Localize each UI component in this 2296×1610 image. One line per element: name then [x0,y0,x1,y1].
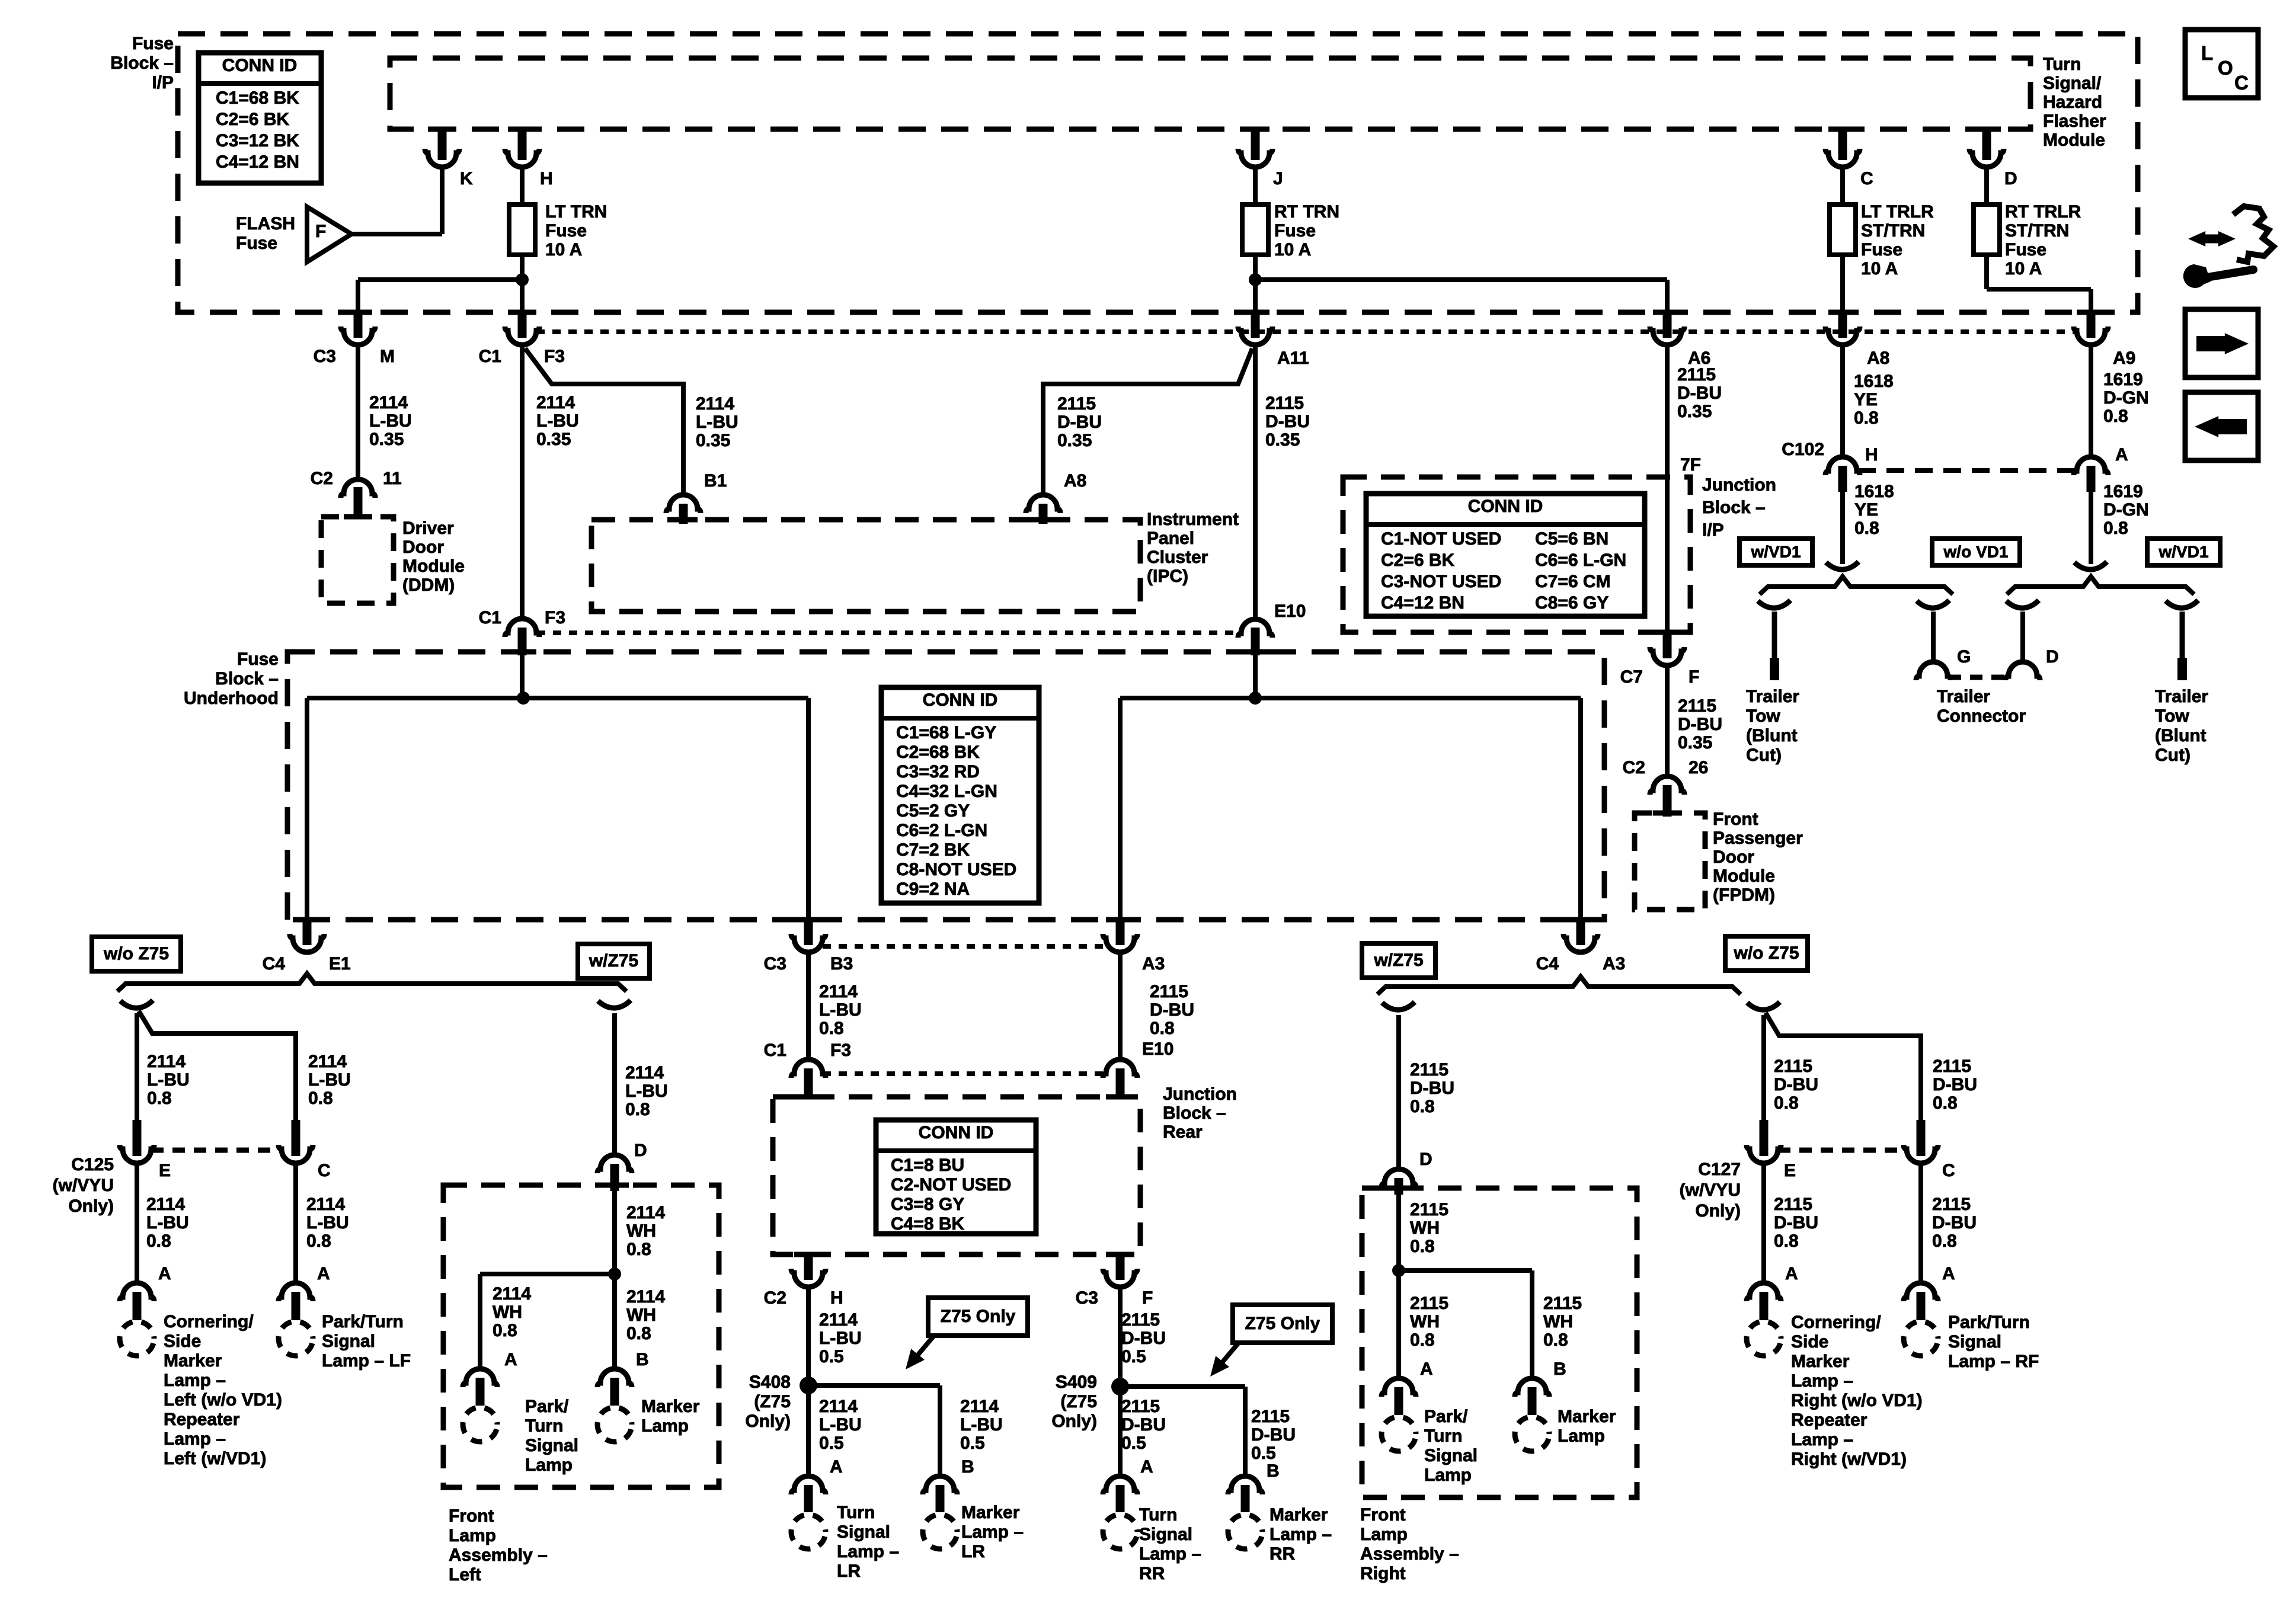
svg-text:C3=32 RD: C3=32 RD [896,762,980,782]
svg-text:LT TRN: LT TRN [545,202,607,222]
svg-text:C6=2 L-GN: C6=2 L-GN [896,821,987,840]
svg-text:0.8: 0.8 [1150,1019,1175,1038]
svg-text:C5=2 GY: C5=2 GY [896,801,970,821]
svg-text:C: C [2234,72,2249,94]
svg-text:2115: 2115 [1265,393,1304,413]
svg-text:L: L [2201,42,2213,64]
svg-text:2114: 2114 [369,393,408,412]
svg-text:C7=6 CM: C7=6 CM [1535,572,1611,591]
svg-text:E1: E1 [329,954,351,974]
svg-text:C2-NOT USED: C2-NOT USED [891,1175,1011,1195]
svg-text:Turn: Turn [2043,55,2081,74]
svg-text:Door: Door [402,537,444,557]
svg-text:F: F [1689,667,1699,687]
svg-text:C4: C4 [1536,954,1559,974]
svg-text:C1-NOT USED: C1-NOT USED [1381,529,1501,549]
svg-text:YE: YE [1854,500,1878,520]
svg-text:C2: C2 [311,469,333,488]
svg-text:2115: 2115 [1774,1195,1812,1214]
svg-text:E10: E10 [1142,1039,1173,1059]
svg-text:Cornering/: Cornering/ [164,1312,254,1331]
svg-text:Flasher: Flasher [2043,111,2106,131]
svg-text:Module: Module [402,556,465,576]
svg-text:A3: A3 [1603,954,1625,974]
svg-text:0.35: 0.35 [1678,733,1712,753]
svg-text:A8: A8 [1064,471,1086,491]
svg-text:0.35: 0.35 [369,430,404,449]
svg-text:A: A [158,1264,171,1283]
svg-text:Marker: Marker [641,1397,700,1416]
svg-text:2115: 2115 [1933,1057,1971,1076]
svg-text:2115: 2115 [1150,982,1188,1001]
svg-text:D-BU: D-BU [1774,1213,1818,1233]
svg-text:C2=6 BK: C2=6 BK [1381,550,1455,570]
svg-text:1618: 1618 [1854,482,1894,501]
svg-text:Connector: Connector [1937,706,2026,726]
svg-text:C6=6 L-GN: C6=6 L-GN [1535,550,1626,570]
svg-text:LT TRLR: LT TRLR [1861,202,1934,222]
svg-text:H: H [1865,445,1878,465]
svg-text:0.5: 0.5 [1121,1433,1146,1453]
svg-text:Junction: Junction [1163,1084,1237,1104]
svg-text:C4: C4 [263,954,286,974]
svg-text:I/P: I/P [152,73,174,92]
svg-text:Marker: Marker [961,1503,1020,1522]
svg-text:Right: Right [1360,1564,1406,1583]
svg-text:B: B [1267,1461,1280,1481]
svg-text:Repeater: Repeater [1791,1410,1868,1430]
svg-text:2114: 2114 [819,1397,858,1416]
svg-text:0.5: 0.5 [819,1433,844,1453]
svg-text:10 A: 10 A [545,240,582,260]
svg-text:D-BU: D-BU [1121,1415,1166,1435]
svg-text:A: A [830,1457,843,1477]
svg-text:C3: C3 [1076,1288,1098,1308]
svg-text:Trailer: Trailer [1746,687,1799,706]
svg-text:0.8: 0.8 [1410,1237,1435,1256]
svg-text:Signal: Signal [837,1522,890,1542]
svg-text:Only): Only) [1695,1201,1741,1221]
svg-text:2114: 2114 [960,1397,999,1416]
svg-text:L-BU: L-BU [536,411,579,431]
svg-text:Module: Module [2043,130,2105,150]
svg-text:LR: LR [837,1561,861,1581]
svg-text:Fuse: Fuse [236,233,277,253]
svg-text:RR: RR [1139,1564,1165,1583]
svg-text:C2=6 BK: C2=6 BK [216,110,290,129]
svg-text:1618: 1618 [1854,372,1894,391]
svg-text:C2: C2 [1623,758,1645,777]
svg-text:Lamp: Lamp [1424,1465,1472,1485]
svg-text:Cut): Cut) [2155,745,2191,765]
svg-text:Marker: Marker [1791,1352,1850,1371]
svg-text:0.8: 0.8 [1854,518,1879,538]
svg-text:Park/: Park/ [1424,1407,1468,1426]
svg-text:LR: LR [961,1542,985,1561]
svg-text:L-BU: L-BU [819,1000,862,1020]
svg-text:Signal: Signal [1139,1525,1192,1544]
svg-text:Marker: Marker [1269,1505,1328,1525]
svg-text:2115: 2115 [1543,1294,1582,1313]
svg-text:Front: Front [1713,809,1758,829]
svg-text:A: A [1140,1457,1153,1477]
svg-text:2114: 2114 [536,393,575,412]
svg-text:CONN ID: CONN ID [923,690,998,710]
svg-text:C1: C1 [764,1041,786,1060]
svg-text:Fuse: Fuse [2005,240,2046,260]
svg-text:D-BU: D-BU [1121,1329,1166,1348]
svg-text:11: 11 [383,469,402,488]
svg-text:F3: F3 [545,608,565,628]
svg-text:Fuse: Fuse [1274,221,1316,241]
svg-text:A8: A8 [1867,348,1889,368]
svg-text:(DDM): (DDM) [402,575,455,595]
svg-text:0.8: 0.8 [1410,1330,1435,1350]
svg-text:D-BU: D-BU [1265,412,1310,431]
svg-text:WH: WH [626,1221,656,1241]
svg-text:Signal: Signal [1948,1332,2001,1352]
svg-text:Signal: Signal [525,1436,578,1455]
svg-text:Passenger: Passenger [1713,828,1803,848]
svg-text:C3=8 GY: C3=8 GY [891,1195,964,1214]
svg-text:Lamp: Lamp [525,1455,573,1475]
svg-text:Cut): Cut) [1746,745,1782,765]
svg-text:L-BU: L-BU [369,411,412,431]
svg-text:F: F [1142,1288,1153,1308]
svg-text:10 A: 10 A [1274,240,1311,260]
svg-text:Trailer: Trailer [2155,687,2208,706]
svg-text:1619: 1619 [2103,370,2143,389]
svg-text:O: O [2218,57,2233,79]
svg-text:D-BU: D-BU [1410,1078,1454,1098]
svg-text:2115: 2115 [1410,1060,1448,1080]
svg-text:Instrument: Instrument [1147,510,1239,529]
svg-text:C7=2 BK: C7=2 BK [896,840,970,860]
svg-text:C1=68 L-GY: C1=68 L-GY [896,723,996,742]
svg-text:0.8: 0.8 [2103,518,2128,538]
svg-text:C4=12 BN: C4=12 BN [1381,593,1464,613]
svg-text:Marker: Marker [164,1351,222,1371]
svg-text:Tow: Tow [1746,706,1780,726]
svg-text:w/Z75: w/Z75 [1373,950,1423,970]
svg-text:2114: 2114 [819,982,858,1001]
svg-text:Signal: Signal [322,1331,375,1351]
svg-text:Only): Only) [1051,1411,1097,1431]
svg-text:Right (w/o VD1): Right (w/o VD1) [1791,1391,1923,1410]
svg-text:Side: Side [164,1331,201,1351]
svg-text:26: 26 [1689,758,1708,777]
svg-text:C102: C102 [1782,440,1824,459]
svg-text:Fuse: Fuse [132,34,174,53]
svg-text:C2: C2 [764,1288,786,1308]
svg-text:2114: 2114 [147,1052,186,1071]
svg-text:D-BU: D-BU [1933,1075,1977,1094]
svg-text:Assembly –: Assembly – [1360,1544,1459,1564]
svg-text:C5=6 BN: C5=6 BN [1535,529,1609,549]
svg-text:Signal/: Signal/ [2043,73,2102,93]
svg-text:2114: 2114 [146,1195,185,1214]
svg-text:2115: 2115 [1677,365,1716,385]
svg-text:Marker: Marker [1558,1407,1616,1426]
svg-text:C4=12 BN: C4=12 BN [216,152,299,172]
svg-text:Left (w/VD1): Left (w/VD1) [164,1449,266,1468]
svg-text:WH: WH [626,1305,656,1325]
svg-text:Module: Module [1713,866,1775,886]
svg-text:0.8: 0.8 [1774,1093,1799,1113]
svg-text:K: K [460,169,473,188]
svg-text:Lamp –: Lamp – [164,1371,226,1390]
svg-text:E10: E10 [1274,601,1306,621]
svg-text:L-BU: L-BU [960,1415,1003,1435]
svg-text:C1: C1 [479,347,501,366]
svg-text:Lamp – RF: Lamp – RF [1948,1352,2039,1371]
svg-text:D: D [2046,647,2059,667]
svg-text:(w/VYU: (w/VYU [1680,1180,1741,1200]
svg-text:D-BU: D-BU [1057,412,1102,432]
svg-text:0.8: 0.8 [306,1231,331,1251]
svg-text:A: A [504,1350,517,1369]
svg-text:w/o Z75: w/o Z75 [103,944,169,964]
svg-text:2115: 2115 [1057,394,1096,414]
svg-text:G: G [1957,647,1971,667]
svg-text:C3: C3 [314,347,336,366]
svg-text:0.8: 0.8 [147,1089,172,1108]
svg-text:Side: Side [1791,1332,1828,1352]
svg-text:Assembly –: Assembly – [449,1545,548,1565]
svg-text:Lamp: Lamp [641,1416,689,1436]
svg-text:Fuse: Fuse [1861,240,1902,260]
svg-text:0.8: 0.8 [493,1321,517,1340]
svg-text:L-BU: L-BU [147,1070,190,1090]
svg-text:Z75 Only: Z75 Only [941,1307,1016,1326]
svg-text:2114: 2114 [819,1310,858,1330]
svg-text:C125: C125 [71,1155,114,1174]
svg-text:Lamp –: Lamp – [837,1542,899,1561]
svg-text:Tow: Tow [2155,706,2189,726]
svg-text:Block –: Block – [110,53,174,73]
svg-text:0.35: 0.35 [1677,402,1712,421]
svg-text:ST/TRN: ST/TRN [2005,221,2069,241]
svg-text:C8=6 GY: C8=6 GY [1535,593,1609,613]
svg-text:D-BU: D-BU [1932,1213,1977,1233]
svg-text:0.5: 0.5 [819,1347,844,1366]
svg-text:Lamp –: Lamp – [164,1429,226,1449]
svg-text:(IPC): (IPC) [1147,566,1188,586]
svg-text:Lamp: Lamp [1360,1525,1408,1544]
svg-text:D-BU: D-BU [1678,715,1722,734]
svg-text:YE: YE [1854,390,1878,409]
svg-text:Lamp: Lamp [449,1526,496,1545]
svg-text:Turn: Turn [525,1416,563,1436]
svg-text:2115: 2115 [1774,1057,1812,1076]
svg-text:C1=8 BU: C1=8 BU [891,1156,964,1175]
svg-text:C1=68 BK: C1=68 BK [216,88,299,108]
svg-text:Trailer: Trailer [1937,687,1990,706]
svg-text:w/VD1: w/VD1 [2158,542,2208,561]
svg-text:0.35: 0.35 [696,431,730,450]
svg-text:Lamp – LF: Lamp – LF [322,1351,411,1371]
svg-text:2114: 2114 [626,1203,665,1222]
svg-text:0.8: 0.8 [626,1324,651,1343]
svg-text:0.8: 0.8 [146,1231,171,1251]
svg-text:WH: WH [1543,1312,1573,1331]
svg-text:D-BU: D-BU [1677,383,1722,403]
svg-text:D-BU: D-BU [1150,1000,1194,1020]
svg-text:E: E [159,1161,171,1180]
svg-text:D-GN: D-GN [2103,388,2149,408]
svg-text:C8-NOT USED: C8-NOT USED [896,860,1016,879]
svg-text:2115: 2115 [1678,696,1716,716]
svg-text:B: B [1553,1359,1566,1379]
svg-text:F3: F3 [830,1041,851,1060]
svg-text:Park/Turn: Park/Turn [322,1312,404,1331]
svg-text:B: B [961,1457,974,1477]
svg-text:2114: 2114 [308,1052,347,1071]
svg-text:2114: 2114 [625,1063,664,1083]
svg-text:Rear: Rear [1163,1122,1203,1142]
svg-text:Cornering/: Cornering/ [1791,1313,1881,1332]
svg-text:C4=8 BK: C4=8 BK [891,1214,965,1234]
svg-text:M: M [380,347,395,366]
svg-text:A3: A3 [1142,954,1165,974]
svg-text:CONN ID: CONN ID [1468,497,1543,516]
svg-text:Front: Front [449,1506,494,1526]
svg-text:L-BU: L-BU [819,1415,862,1435]
svg-text:C3=12 BK: C3=12 BK [216,131,299,151]
svg-text:2115: 2115 [1121,1397,1160,1416]
svg-text:CONN ID: CONN ID [919,1123,994,1142]
svg-text:Left (w/o VD1): Left (w/o VD1) [164,1390,282,1410]
svg-text:S408: S408 [749,1372,791,1392]
svg-text:F: F [315,222,326,241]
svg-text:C127: C127 [1698,1160,1741,1179]
svg-text:RT TRLR: RT TRLR [2005,202,2081,222]
svg-text:A: A [1785,1264,1798,1283]
svg-text:J: J [1273,169,1283,188]
svg-text:w/o Z75: w/o Z75 [1733,943,1799,963]
svg-text:Junction: Junction [1702,475,1776,495]
svg-text:D: D [2004,169,2017,188]
svg-text:S409: S409 [1056,1372,1097,1392]
svg-text:0.8: 0.8 [2103,406,2128,426]
svg-text:WH: WH [1410,1312,1440,1331]
svg-text:Lamp –: Lamp – [1791,1371,1853,1391]
svg-text:2115: 2115 [1121,1310,1160,1330]
svg-text:D: D [634,1141,647,1160]
svg-text:C2=68 BK: C2=68 BK [896,742,980,762]
svg-text:Block –: Block – [1702,498,1766,517]
svg-text:A: A [1420,1359,1433,1379]
svg-text:0.8: 0.8 [1854,408,1879,428]
svg-text:Cluster: Cluster [1147,548,1208,567]
svg-text:2114: 2114 [696,394,734,414]
svg-text:Only): Only) [68,1196,114,1216]
svg-text:Signal: Signal [1424,1446,1478,1465]
svg-text:D-GN: D-GN [2103,500,2149,520]
svg-text:D-BU: D-BU [1774,1075,1818,1094]
svg-text:C7: C7 [1620,667,1643,687]
svg-text:(FPDM): (FPDM) [1713,885,1775,905]
svg-text:0.5: 0.5 [960,1433,985,1453]
svg-text:Panel: Panel [1147,529,1194,548]
svg-text:RT TRN: RT TRN [1274,202,1339,222]
svg-text:0.8: 0.8 [626,1240,651,1259]
svg-text:2114: 2114 [493,1284,531,1304]
svg-text:0.35: 0.35 [1057,431,1092,450]
svg-text:B: B [636,1350,649,1369]
svg-text:A9: A9 [2113,348,2135,368]
svg-text:RR: RR [1269,1544,1296,1564]
svg-text:F3: F3 [544,347,565,366]
svg-text:0.8: 0.8 [625,1100,650,1119]
svg-text:Driver: Driver [402,518,454,538]
svg-text:Fuse: Fuse [237,649,279,669]
svg-text:C9=2 NA: C9=2 NA [896,879,970,899]
svg-text:(Blunt: (Blunt [1746,726,1798,745]
svg-text:Underhood: Underhood [184,689,279,708]
svg-text:D-BU: D-BU [1251,1425,1296,1445]
svg-text:A: A [317,1264,330,1283]
svg-text:A: A [1942,1264,1955,1283]
svg-text:B3: B3 [830,954,853,974]
svg-text:Z75 Only: Z75 Only [1245,1314,1320,1333]
svg-text:WH: WH [493,1302,522,1322]
svg-text:L-BU: L-BU [306,1213,349,1233]
svg-text:(w/VYU: (w/VYU [53,1176,114,1195]
svg-text:FLASH: FLASH [236,214,295,233]
svg-text:L-BU: L-BU [308,1070,351,1090]
svg-text:Block –: Block – [215,669,279,689]
svg-text:E: E [1784,1161,1796,1180]
svg-text:Repeater: Repeater [164,1410,240,1429]
svg-text:Lamp –: Lamp – [1269,1525,1332,1544]
svg-text:0.35: 0.35 [536,430,571,449]
svg-text:0.8: 0.8 [1774,1231,1799,1251]
svg-text:1619: 1619 [2103,482,2143,501]
svg-text:0.8: 0.8 [819,1019,844,1038]
svg-text:(Blunt: (Blunt [2155,726,2207,745]
svg-text:Turn: Turn [837,1503,875,1522]
svg-text:2114: 2114 [626,1287,665,1307]
svg-text:w/VD1: w/VD1 [1750,542,1801,561]
svg-text:L-BU: L-BU [696,412,738,432]
svg-text:H: H [830,1288,843,1308]
svg-text:2115: 2115 [1410,1294,1448,1313]
svg-text:C1: C1 [479,608,501,628]
svg-text:B1: B1 [704,471,727,491]
svg-text:Lamp –: Lamp – [1139,1544,1201,1564]
svg-text:2115: 2115 [1251,1407,1290,1426]
svg-text:A: A [2115,445,2128,465]
svg-text:Left: Left [449,1565,481,1585]
svg-text:L-BU: L-BU [146,1213,189,1233]
svg-text:D: D [1419,1150,1432,1169]
svg-text:L-BU: L-BU [625,1081,668,1101]
svg-text:Turn: Turn [1139,1505,1177,1525]
svg-text:C: C [1860,169,1873,188]
svg-text:10 A: 10 A [2005,259,2042,279]
svg-text:Block –: Block – [1163,1103,1226,1123]
svg-text:0.8: 0.8 [1543,1330,1568,1350]
svg-text:CONN ID: CONN ID [222,56,298,75]
svg-text:L-BU: L-BU [819,1329,862,1348]
svg-text:I/P: I/P [1702,520,1724,540]
svg-text:ST/TRN: ST/TRN [1861,221,1925,241]
svg-text:C: C [1942,1161,1955,1180]
svg-text:A11: A11 [1277,348,1309,368]
svg-text:w/Z75: w/Z75 [589,951,638,971]
svg-text:(Z75: (Z75 [1060,1392,1097,1411]
